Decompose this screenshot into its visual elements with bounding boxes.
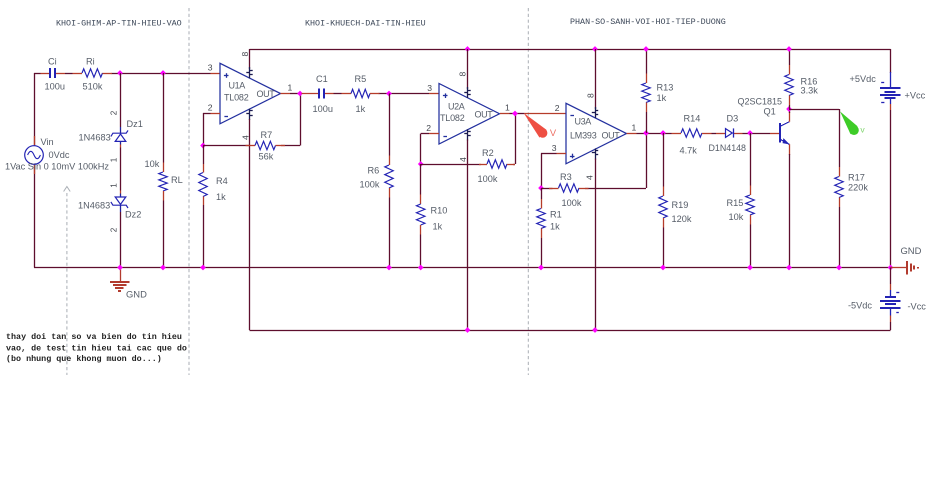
svg-text:1k: 1k [216, 192, 226, 202]
svg-text:R10: R10 [431, 206, 448, 216]
node junction R1 ground [538, 265, 544, 271]
svg-text:RL: RL [171, 175, 183, 185]
node junction R17 ground [836, 265, 842, 271]
wire Q1 collector to node [789, 109, 791, 113]
annotation text [6, 332, 187, 364]
node junction R13 rail [643, 46, 649, 52]
resistor R2 [479, 160, 515, 168]
node junction R13 bottom [643, 130, 649, 136]
svg-text:8: 8 [586, 93, 596, 98]
wire collector node to R17 [789, 109, 840, 268]
svg-text:OUT: OUT [257, 89, 276, 99]
wire R16 branch [789, 49, 791, 109]
wire D3 to Q1 base [743, 133, 771, 135]
svg-text:thay doi tan so va bien do tin: thay doi tan so va bien do tin hieu [6, 332, 182, 342]
resistor R10 [417, 195, 425, 235]
svg-text:8: 8 [240, 52, 250, 57]
resistor Ri [73, 69, 113, 77]
wire U2A pin4 to -Vcc rail [467, 140, 469, 331]
node junction emitter ground [786, 265, 792, 271]
wire R10 branch [420, 164, 422, 268]
label R4 1k [216, 176, 228, 202]
wire RL branch vertical [163, 73, 165, 268]
wire top row to U1A pin3 [34, 73, 220, 75]
label R17 220k [848, 173, 868, 193]
label R5 1k [355, 74, 367, 114]
wire R19 branch [663, 133, 665, 268]
svg-text:+5Vdc: +5Vdc [850, 74, 877, 84]
node junction Ri-Dz1 [117, 70, 123, 76]
svg-text:-Vcc: -Vcc [908, 302, 927, 312]
svg-text:4.7k: 4.7k [680, 146, 698, 156]
label U2A TL082 OUT [440, 102, 493, 124]
svg-text:2: 2 [208, 103, 213, 113]
node junction R4 ground [200, 265, 206, 271]
svg-text:120k: 120k [672, 214, 692, 224]
wire Q1 emitter to ground [789, 154, 791, 268]
svg-text:1k: 1k [657, 93, 667, 103]
resistor R17 [835, 167, 843, 207]
resistor R16 [785, 65, 793, 105]
label C1 100u [313, 74, 333, 114]
op-amp U1A TL082 [220, 63, 281, 124]
wire U1A pin8 to +Vcc rail [249, 49, 251, 69]
label R15 10k [727, 198, 744, 222]
node junction R6 top [386, 91, 392, 97]
wire R4 to ground bus [203, 205, 205, 268]
svg-text:Ci: Ci [48, 57, 57, 67]
svg-text:1N4683: 1N4683 [78, 201, 110, 211]
svg-text:3: 3 [208, 63, 213, 73]
transistor Q1 Q2SC1815 [770, 112, 790, 155]
label U3A LM393 OUT [570, 117, 620, 141]
wire U2A pin2 loop [421, 134, 440, 165]
svg-text:vao, de test tin hieu tai cac: vao, de test tin hieu tai cac que do [6, 344, 187, 354]
svg-text:R14: R14 [684, 114, 701, 124]
svg-text:U3A: U3A [575, 117, 592, 127]
svg-text:TL082: TL082 [224, 93, 249, 103]
node junction collector [786, 106, 792, 112]
power pin 8 U3A [592, 107, 598, 118]
node junction U2A out [512, 111, 518, 117]
label Dz2 1N4683 [78, 201, 141, 220]
node junction battery ground bus [888, 265, 894, 271]
power pin 4 U3A [592, 148, 598, 159]
label R2 100k [478, 148, 498, 184]
wire pin2 junction to R4 [203, 146, 205, 165]
capacitor Ci [41, 68, 66, 78]
wire U1A output row [281, 93, 440, 95]
svg-text:4: 4 [458, 157, 468, 162]
ground symbol GND right [891, 261, 919, 275]
label R13 1k [657, 83, 674, 104]
node junction R2 left [418, 161, 424, 167]
op-amp U2A TL082 [439, 84, 500, 145]
wire R1 branch [541, 188, 543, 268]
dashed region divider x=189 [188, 8, 190, 375]
svg-text:1: 1 [632, 123, 637, 133]
wire Dz branch vertical [120, 73, 122, 268]
svg-text:1k: 1k [550, 222, 560, 232]
node junction RL top [160, 70, 166, 76]
svg-text:3.3k: 3.3k [801, 86, 819, 96]
svg-text:100u: 100u [313, 104, 333, 114]
AC source Vin [25, 136, 44, 174]
label R19 120k [672, 200, 692, 224]
node junction R16 rail [786, 46, 792, 52]
node junction R6 ground [386, 265, 392, 271]
svg-text:2: 2 [110, 110, 119, 115]
wire U3A pin4 to -Vcc rail [595, 159, 597, 330]
power pin 8 U1A [246, 67, 252, 78]
svg-text:2: 2 [426, 123, 431, 133]
svg-text:Dz1: Dz1 [127, 119, 143, 129]
wire R13 branch [646, 49, 648, 133]
svg-text:U2A: U2A [448, 102, 465, 112]
svg-text:3: 3 [427, 83, 432, 93]
node junction Dz2 ground [117, 265, 123, 271]
node junction U2A pin4 -Vcc [465, 327, 471, 333]
label U1A TL082 OUT [224, 81, 275, 103]
svg-text:100k: 100k [562, 198, 582, 208]
svg-text:1: 1 [110, 183, 119, 188]
dashed region divider x=528 [527, 8, 529, 375]
svg-text:PHAN-SO-SANH-VOI-HOI-TIEP-DUON: PHAN-SO-SANH-VOI-HOI-TIEP-DUONG [570, 17, 726, 27]
node junction pin8 U2A rail [465, 46, 471, 52]
svg-text:1: 1 [288, 83, 293, 93]
svg-text:R7: R7 [261, 130, 273, 140]
svg-text:1N4683: 1N4683 [79, 133, 111, 143]
svg-text:4: 4 [585, 175, 595, 180]
svg-text:1k: 1k [356, 104, 366, 114]
zener diode Dz2 [111, 191, 128, 213]
resistor R13 [642, 74, 650, 113]
resistor R4 [199, 164, 207, 205]
wire Vin vertical left [34, 73, 36, 268]
resistor RL [159, 163, 167, 201]
svg-text:KHOI-KHUECH-DAI-TIN-HIEU: KHOI-KHUECH-DAI-TIN-HIEU [305, 19, 426, 29]
svg-text:D1N4148: D1N4148 [709, 143, 747, 153]
svg-text:R3: R3 [560, 172, 572, 182]
svg-text:10k: 10k [729, 212, 744, 222]
wire U2A pin8 to +Vcc rail [467, 49, 469, 89]
node junction R15 ground [747, 265, 753, 271]
label R6 100k [360, 166, 380, 190]
wire -Vcc bottom rail [250, 330, 891, 332]
svg-text:1: 1 [505, 103, 510, 113]
wire U2A output to U3A pin2 [500, 113, 566, 115]
wire U3A pin8 to +Vcc rail [595, 49, 597, 109]
node junction RL ground [160, 265, 166, 271]
svg-text:100k: 100k [478, 174, 498, 184]
svg-text:R15: R15 [727, 198, 744, 208]
wire R14 to D3 [712, 133, 717, 135]
power pin 8 U2A [464, 87, 470, 98]
wire U1A pin4 to -Vcc rail [249, 119, 251, 330]
label RL 10k [145, 159, 183, 185]
wire ground bus [34, 267, 891, 269]
svg-text:OUT: OUT [475, 110, 494, 120]
node junction pin8 U3A rail [592, 46, 598, 52]
svg-text:U1A: U1A [229, 81, 246, 91]
resistor R6 [385, 156, 393, 198]
svg-text:-5Vdc: -5Vdc [848, 301, 872, 311]
dashed marker arrow below Vin [64, 187, 71, 376]
wire U1A pin2 loop [203, 113, 220, 146]
svg-text:R13: R13 [657, 83, 674, 93]
resistor R1 [537, 199, 545, 238]
voltage probe red [524, 113, 557, 138]
svg-text:1: 1 [110, 157, 119, 162]
svg-text:D3: D3 [727, 114, 739, 124]
svg-text:R1: R1 [550, 210, 562, 220]
capacitor C1 [302, 88, 334, 98]
label +5Vdc +Vcc [850, 74, 926, 101]
svg-text:R5: R5 [355, 74, 367, 84]
wire +Vcc top rail [250, 49, 891, 51]
svg-text:2: 2 [555, 103, 560, 113]
label R16 3.3k [801, 77, 819, 96]
label -5Vdc -Vcc [848, 301, 926, 312]
label R10 1k [431, 206, 448, 232]
svg-text:R6: R6 [368, 166, 380, 176]
resistor R3 [549, 184, 589, 192]
label Ci 100u [45, 57, 65, 92]
svg-text:1Vac Sin 0 10mV 100kHz: 1Vac Sin 0 10mV 100kHz [5, 162, 109, 172]
label R3 100k [560, 172, 582, 208]
svg-text:100k: 100k [360, 180, 380, 190]
svg-text:LM393: LM393 [570, 131, 597, 141]
label R7 56k [259, 130, 274, 162]
wire +5Vdc to ground bus [890, 110, 892, 268]
node junction U3A pin4 -Vcc [592, 327, 598, 333]
resistor R15 [746, 186, 754, 225]
wire R7 feedback row [203, 94, 301, 146]
wire R6 branch [389, 94, 391, 268]
node junction R1-R3-pin3 [538, 185, 544, 191]
svg-text:R2: R2 [482, 148, 494, 158]
svg-text:+Vcc: +Vcc [905, 91, 926, 101]
svg-text:R17: R17 [848, 173, 865, 183]
power pin 4 U1A [246, 109, 252, 120]
svg-text:R4: R4 [216, 176, 228, 186]
svg-text:3: 3 [552, 143, 557, 153]
svg-text:220k: 220k [848, 183, 868, 193]
node junction R15 top [747, 130, 753, 136]
svg-text:Vin: Vin [41, 137, 54, 147]
svg-text:100u: 100u [45, 82, 65, 92]
wire R15 branch [750, 133, 752, 268]
node junction R10 ground [418, 265, 424, 271]
diode D3 1N4148 [716, 128, 743, 137]
label Vin [5, 137, 109, 172]
resistor R19 [659, 187, 667, 228]
svg-text:Dz2: Dz2 [125, 210, 141, 220]
svg-text:Q2SC1815: Q2SC1815 [738, 97, 783, 107]
label R1 1k [550, 210, 562, 232]
label Ri 510k [83, 57, 103, 92]
wire R3 feedback row [541, 133, 647, 189]
node junction R19 ground [660, 265, 666, 271]
ground symbol GND left [110, 268, 130, 292]
node junction U1A out [297, 91, 303, 97]
zener diode Dz1 [111, 127, 128, 148]
svg-text:510k: 510k [83, 82, 103, 92]
power pin 4 U2A [464, 129, 470, 140]
resistor R5 [342, 89, 380, 97]
battery -5Vdc [880, 268, 900, 323]
svg-text:10k: 10k [145, 159, 160, 169]
node junction R19 top [660, 130, 666, 136]
svg-text:2: 2 [110, 227, 119, 232]
svg-text:(bo nhung que khong muon do...: (bo nhung que khong muon do...) [6, 354, 162, 364]
svg-text:R19: R19 [672, 200, 689, 210]
svg-text:Ri: Ri [86, 57, 95, 67]
svg-text:v: v [860, 125, 865, 135]
wire R2 feedback row [421, 114, 516, 165]
svg-text:8: 8 [458, 72, 468, 77]
resistor R14 [672, 129, 712, 137]
battery +5Vdc [880, 49, 900, 110]
op-amp comparator U3A LM393 [566, 103, 627, 164]
svg-text:0Vdc: 0Vdc [49, 150, 70, 160]
label R14 4.7k [680, 114, 701, 156]
svg-text:Q1: Q1 [764, 107, 776, 117]
svg-text:C1: C1 [316, 74, 328, 84]
svg-text:KHOI-GHIM-AP-TIN-HIEU-VAO: KHOI-GHIM-AP-TIN-HIEU-VAO [56, 19, 182, 29]
svg-text:TL082: TL082 [440, 113, 465, 123]
wire -5Vdc to -Vcc rail [890, 322, 892, 330]
svg-text:GND: GND [901, 245, 922, 256]
label Dz1 1N4683 [79, 119, 143, 143]
svg-text:GND: GND [126, 289, 147, 300]
wire U3A output row [627, 133, 672, 135]
svg-text:56k: 56k [259, 152, 274, 162]
resistor R7 [246, 141, 286, 149]
svg-text:V: V [550, 127, 557, 138]
wire U3A pin3 loop [541, 153, 566, 188]
label D3 D1N4148 [709, 114, 747, 154]
label Q1 Q2SC1815 [738, 97, 783, 117]
svg-text:1k: 1k [433, 222, 443, 232]
svg-text:OUT: OUT [602, 131, 621, 141]
voltage probe green [840, 111, 865, 135]
node junction R4-R7-pin2 [200, 143, 206, 149]
